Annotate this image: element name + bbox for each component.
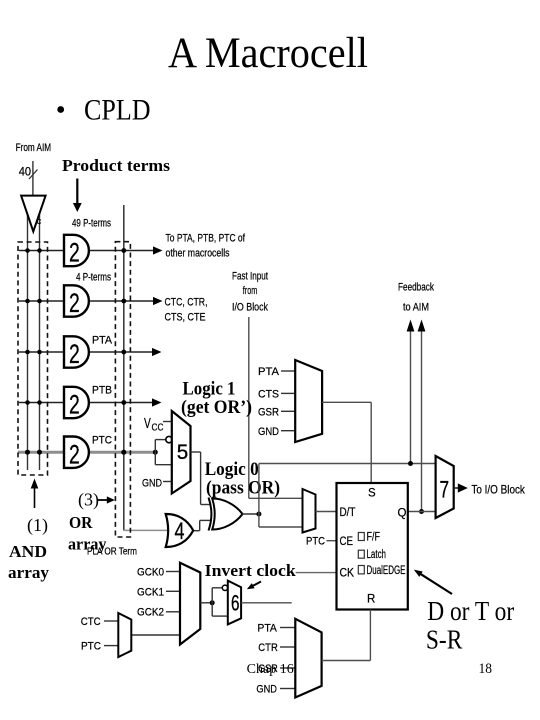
wire OR-line to OR gate 4	[124, 529, 168, 531]
svg-text:Fast Input: Fast Input	[232, 271, 269, 283]
svg-text:49 P-terms: 49 P-terms	[72, 218, 111, 230]
mux5 output wire down to XOR	[191, 451, 201, 453]
svg-text:2: 2	[69, 339, 80, 369]
svg-text:array: array	[8, 563, 50, 582]
mux 6 (clock invert)	[228, 581, 241, 625]
fast input vertical wire	[248, 317, 250, 498]
R mux input stubs	[280, 627, 295, 629]
dashed PLA OR box	[115, 242, 130, 537]
checkbox F/F	[358, 533, 364, 541]
svg-text:7: 7	[440, 477, 450, 504]
wire row4 left	[19, 402, 64, 404]
vertical AND-array line (complement)	[39, 212, 41, 470]
svg-text:PTA: PTA	[257, 623, 277, 635]
feedback wire 1 (combinatorial) with up arrow	[410, 330, 412, 464]
AND gate row1 (49 P-terms)	[64, 235, 89, 266]
svg-text:5: 5	[177, 441, 189, 464]
svg-text:S-R: S-R	[426, 625, 463, 655]
svg-text:GCK2: GCK2	[137, 607, 164, 619]
svg-text:To PTA, PTB, PTC of: To PTA, PTB, PTC of	[166, 233, 246, 245]
loop wires into mux6	[211, 588, 213, 616]
svg-text:6: 6	[231, 591, 240, 616]
junction dot on PTC line	[153, 450, 158, 455]
svg-text:other macrocells: other macrocells	[166, 248, 230, 260]
svg-text:DualEDGE: DualEDGE	[367, 565, 406, 577]
svg-text:(3): (3)	[78, 490, 99, 511]
CTC/PTC input stubs	[104, 620, 118, 622]
XOR gate input arc	[209, 498, 212, 531]
wire mux to D/T pin	[316, 511, 337, 513]
checkbox DualEDGE	[358, 566, 364, 574]
wire row3 left	[19, 351, 64, 353]
wire row1 right to arrow	[89, 250, 156, 252]
svg-text:from: from	[243, 285, 257, 297]
wire PTC to CE pin	[327, 540, 337, 542]
input buffer triangle	[21, 196, 45, 232]
svg-text:CK: CK	[340, 568, 355, 580]
S-source mux input stubs	[281, 370, 295, 372]
GCK input stubs	[166, 571, 180, 573]
AND gate row2 (4 P-terms)	[64, 285, 89, 316]
svg-text:GSR: GSR	[258, 407, 279, 419]
svg-text:PTA: PTA	[92, 335, 112, 347]
svg-text:PTC: PTC	[306, 536, 325, 548]
svg-text:CTS, CTE: CTS, CTE	[165, 312, 206, 324]
AND gate row3 (PTA)	[64, 336, 89, 367]
svg-text:(pass OR): (pass OR)	[206, 478, 280, 499]
wire XOR output down into D/T mux	[258, 514, 260, 527]
annotation arrow D or T to FF	[420, 573, 453, 594]
svg-text:4 P-terms: 4 P-terms	[76, 272, 111, 284]
annotation up arrow to AND array	[34, 486, 36, 508]
svg-text:Q: Q	[398, 508, 407, 520]
svg-text:Chap 16: Chap 16	[247, 661, 294, 676]
svg-text:To I/O Block: To I/O Block	[471, 483, 525, 497]
OR gate 4	[166, 514, 194, 547]
svg-text:(1): (1)	[27, 515, 48, 536]
bus-width slash	[29, 170, 38, 180]
svg-text:GCK0: GCK0	[137, 567, 164, 579]
svg-text:GND: GND	[142, 478, 162, 490]
mux 7 (output select)	[436, 456, 454, 518]
annotation arrow to mux6	[253, 582, 262, 587]
XOR output wire	[242, 513, 259, 515]
R-source mux	[295, 619, 321, 698]
D/T input mux	[303, 489, 316, 533]
svg-text:2: 2	[69, 390, 80, 420]
svg-text:D or T or: D or T or	[427, 596, 514, 626]
svg-text:R: R	[367, 594, 375, 606]
vertical AND-array line (true)	[27, 212, 29, 470]
mux7 output arrow To I/O Block	[454, 487, 458, 489]
wire row1 left	[19, 250, 64, 252]
svg-text:I/O Block: I/O Block	[232, 302, 268, 314]
svg-text:CTC: CTC	[81, 616, 101, 628]
svg-text:Latch: Latch	[367, 549, 387, 561]
inverter bubble at mux5 input	[166, 436, 172, 442]
wire row2 right to arrow	[89, 300, 156, 302]
svg-text:CTR: CTR	[258, 642, 278, 654]
checkbox Latch	[358, 550, 364, 558]
svg-text:to AIM: to AIM	[403, 302, 429, 314]
wire CTC/PTC mux output into clock mux	[131, 634, 180, 636]
svg-text:GND: GND	[256, 684, 277, 696]
svg-text:c: c	[37, 216, 42, 227]
svg-text:CE: CE	[340, 536, 354, 548]
AND gate row5 (PTC)	[64, 437, 89, 468]
flip-flop box U1	[337, 483, 408, 610]
CTC/PTC mux	[118, 613, 131, 657]
wire CK into flip-flop	[296, 572, 337, 574]
svg-text:CC: CC	[152, 423, 164, 434]
svg-text:18: 18	[479, 661, 493, 677]
combinatorial wire up to mux7	[258, 464, 260, 515]
mux 5	[172, 411, 191, 494]
wire S mux output to flip-flop S	[322, 401, 371, 403]
junction dots rows x=123.8	[121, 248, 126, 253]
svg-text:V: V	[144, 415, 151, 432]
svg-text:CPLD: CPLD	[84, 95, 151, 127]
svg-text:From AIM: From AIM	[16, 142, 52, 154]
svg-text:GCK1: GCK1	[137, 587, 164, 599]
XOR gate body	[212, 498, 242, 529]
svg-text:CTC, CTR,: CTC, CTR,	[165, 297, 208, 309]
svg-text:PTC: PTC	[92, 435, 112, 447]
wire Vcc to mux5	[163, 421, 172, 423]
wire row5 PTC (gray highlighted)	[18, 451, 155, 454]
loop wires: inverted/direct PT into mux5	[154, 440, 156, 465]
svg-text:CTS: CTS	[258, 389, 279, 401]
svg-text:PLA OR Term: PLA OR Term	[87, 547, 137, 558]
AND gate row4 (PTB)	[64, 387, 89, 418]
wire row3 right to arrow	[89, 351, 155, 353]
svg-text:2: 2	[69, 439, 80, 469]
inverter bubble at mux6 input	[222, 585, 227, 590]
svg-text:PTA: PTA	[258, 366, 279, 378]
dashed AND array box	[18, 242, 48, 475]
svg-text:4: 4	[175, 518, 185, 545]
svg-text:PTB: PTB	[92, 385, 112, 397]
wire row2 left	[19, 300, 64, 302]
OR-array vertical line	[123, 205, 125, 530]
svg-text:D/T: D/T	[340, 507, 356, 519]
S-source mux	[295, 360, 322, 442]
flip-flop Q output wire	[408, 511, 436, 513]
svg-text:F/F: F/F	[367, 532, 381, 544]
junction dots rows x=27.5	[25, 248, 30, 253]
svg-text:PTC: PTC	[81, 641, 101, 653]
svg-text:Product terms: Product terms	[62, 156, 170, 175]
junction dots rows x=39.5	[37, 248, 42, 253]
svg-text:Feedback: Feedback	[398, 282, 434, 294]
node: XOR output junction	[256, 512, 261, 517]
svg-text:40: 40	[19, 165, 32, 179]
svg-text:2: 2	[69, 288, 80, 318]
fast input wire into D/T mux	[249, 497, 303, 499]
wire: AIM input into buffer	[32, 161, 34, 196]
svg-text:OR: OR	[69, 513, 93, 532]
wire R mux output to flip-flop R	[322, 660, 371, 662]
svg-text:2: 2	[69, 238, 80, 268]
OR gate 4 output wire to XOR	[193, 530, 200, 532]
svg-text:(get OR’): (get OR’)	[181, 397, 252, 418]
clock source mux	[180, 563, 200, 645]
svg-text:AND: AND	[9, 542, 47, 561]
wire row4 right to arrow	[89, 402, 155, 404]
mux6 output wire	[241, 602, 292, 604]
svg-text:GND: GND	[258, 426, 279, 438]
bullet	[57, 106, 64, 113]
svg-text:A Macrocell: A Macrocell	[168, 30, 368, 77]
svg-text:S: S	[368, 488, 376, 500]
wire GND to mux5	[163, 481, 172, 483]
feedback wire 2 (registered) with up arrow	[421, 330, 423, 512]
clock mux output junction	[200, 602, 212, 604]
svg-text:Invert clock: Invert clock	[205, 561, 297, 580]
annotation arrow down from Product terms	[76, 179, 78, 205]
